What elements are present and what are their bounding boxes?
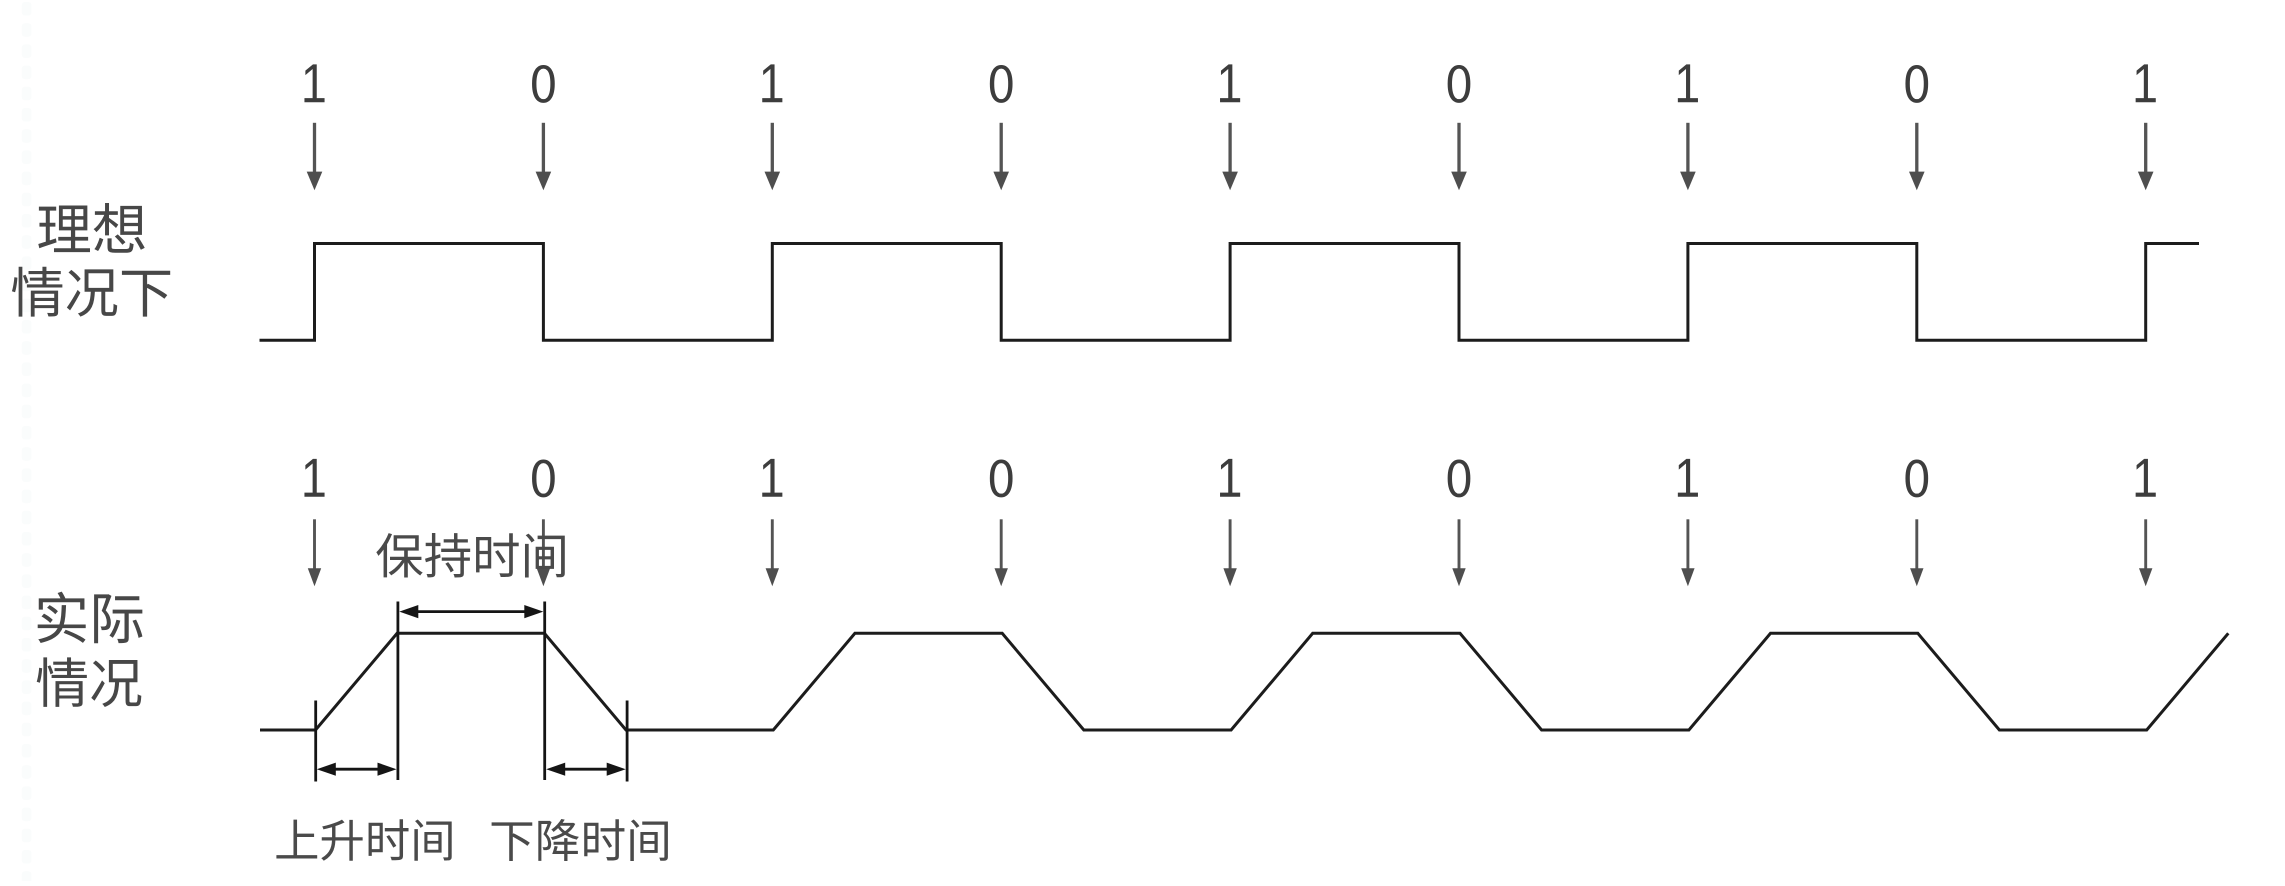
sample arrow (actual row, pos 1) (308, 519, 321, 586)
label 上升时间 (rise time) (276, 819, 451, 861)
bit label 0 (ideal row, pos 6) (1448, 65, 1471, 103)
ideal square-wave clock waveform (260, 244, 2200, 341)
sample arrow (ideal row, pos 6) (1451, 123, 1467, 190)
label 情况 (37, 657, 142, 707)
label 保持时间 (hold time) (376, 533, 564, 578)
sample arrow (actual row, pos 6) (1452, 519, 1465, 586)
label 情况下 (12, 267, 170, 317)
bit label 1 (actual row, pos 9) (2136, 459, 2156, 497)
tick at rise start (314, 701, 317, 782)
bit label 1 (ideal row, pos 5) (1220, 64, 1240, 102)
guide line at fall start / hold end (543, 602, 546, 781)
sample arrow (ideal row, pos 4) (993, 123, 1009, 190)
guide line at rise end / hold start (396, 602, 399, 781)
bit label 1 (actual row, pos 1) (304, 459, 324, 497)
bit label 1 (ideal row, pos 9) (2136, 64, 2156, 102)
sample arrow (ideal row, pos 9) (2138, 123, 2154, 190)
sample arrow (ideal row, pos 3) (765, 123, 781, 190)
label 实际 (actual) (38, 592, 143, 644)
bit label 1 (ideal row, pos 7) (1678, 64, 1698, 102)
sample arrow (ideal row, pos 7) (1680, 123, 1696, 190)
bit label 0 (actual row, pos 4) (990, 460, 1013, 498)
rise time double arrow (317, 763, 397, 776)
bit label 1 (actual row, pos 7) (1678, 459, 1698, 497)
bit label 0 (ideal row, pos 4) (990, 65, 1013, 103)
sample arrow (actual row, pos 4) (995, 519, 1008, 586)
sample arrow (ideal row, pos 1) (307, 123, 323, 190)
hold time double arrow (399, 605, 543, 618)
label 下降时间 (fall time) (492, 819, 668, 861)
tick at fall end (626, 701, 629, 782)
bit label 1 (ideal row, pos 3) (762, 64, 782, 102)
fall time double arrow (546, 763, 626, 776)
sample arrow (actual row, pos 2) (537, 519, 550, 586)
sample arrow (actual row, pos 8) (1910, 519, 1923, 586)
sample arrow (actual row, pos 7) (1681, 519, 1694, 586)
sample arrow (actual row, pos 3) (766, 519, 779, 586)
bit label 0 (actual row, pos 2) (532, 460, 555, 498)
sample arrow (actual row, pos 9) (2139, 519, 2152, 586)
sample arrow (actual row, pos 5) (1223, 519, 1236, 586)
label 理想 (ideal) (38, 203, 144, 253)
bit label 0 (ideal row, pos 2) (532, 65, 555, 103)
bit label 0 (ideal row, pos 8) (1905, 65, 1928, 103)
bit label 0 (actual row, pos 6) (1448, 460, 1471, 498)
sample arrow (ideal row, pos 8) (1909, 123, 1925, 190)
sample arrow (ideal row, pos 2) (536, 123, 552, 190)
bit label 1 (actual row, pos 5) (1220, 459, 1240, 497)
sample arrow (ideal row, pos 5) (1222, 123, 1238, 190)
bit label 1 (ideal row, pos 1) (304, 64, 324, 102)
bit label 1 (actual row, pos 3) (762, 459, 782, 497)
actual trapezoidal waveform (260, 633, 2228, 730)
bit label 0 (actual row, pos 8) (1905, 460, 1928, 498)
